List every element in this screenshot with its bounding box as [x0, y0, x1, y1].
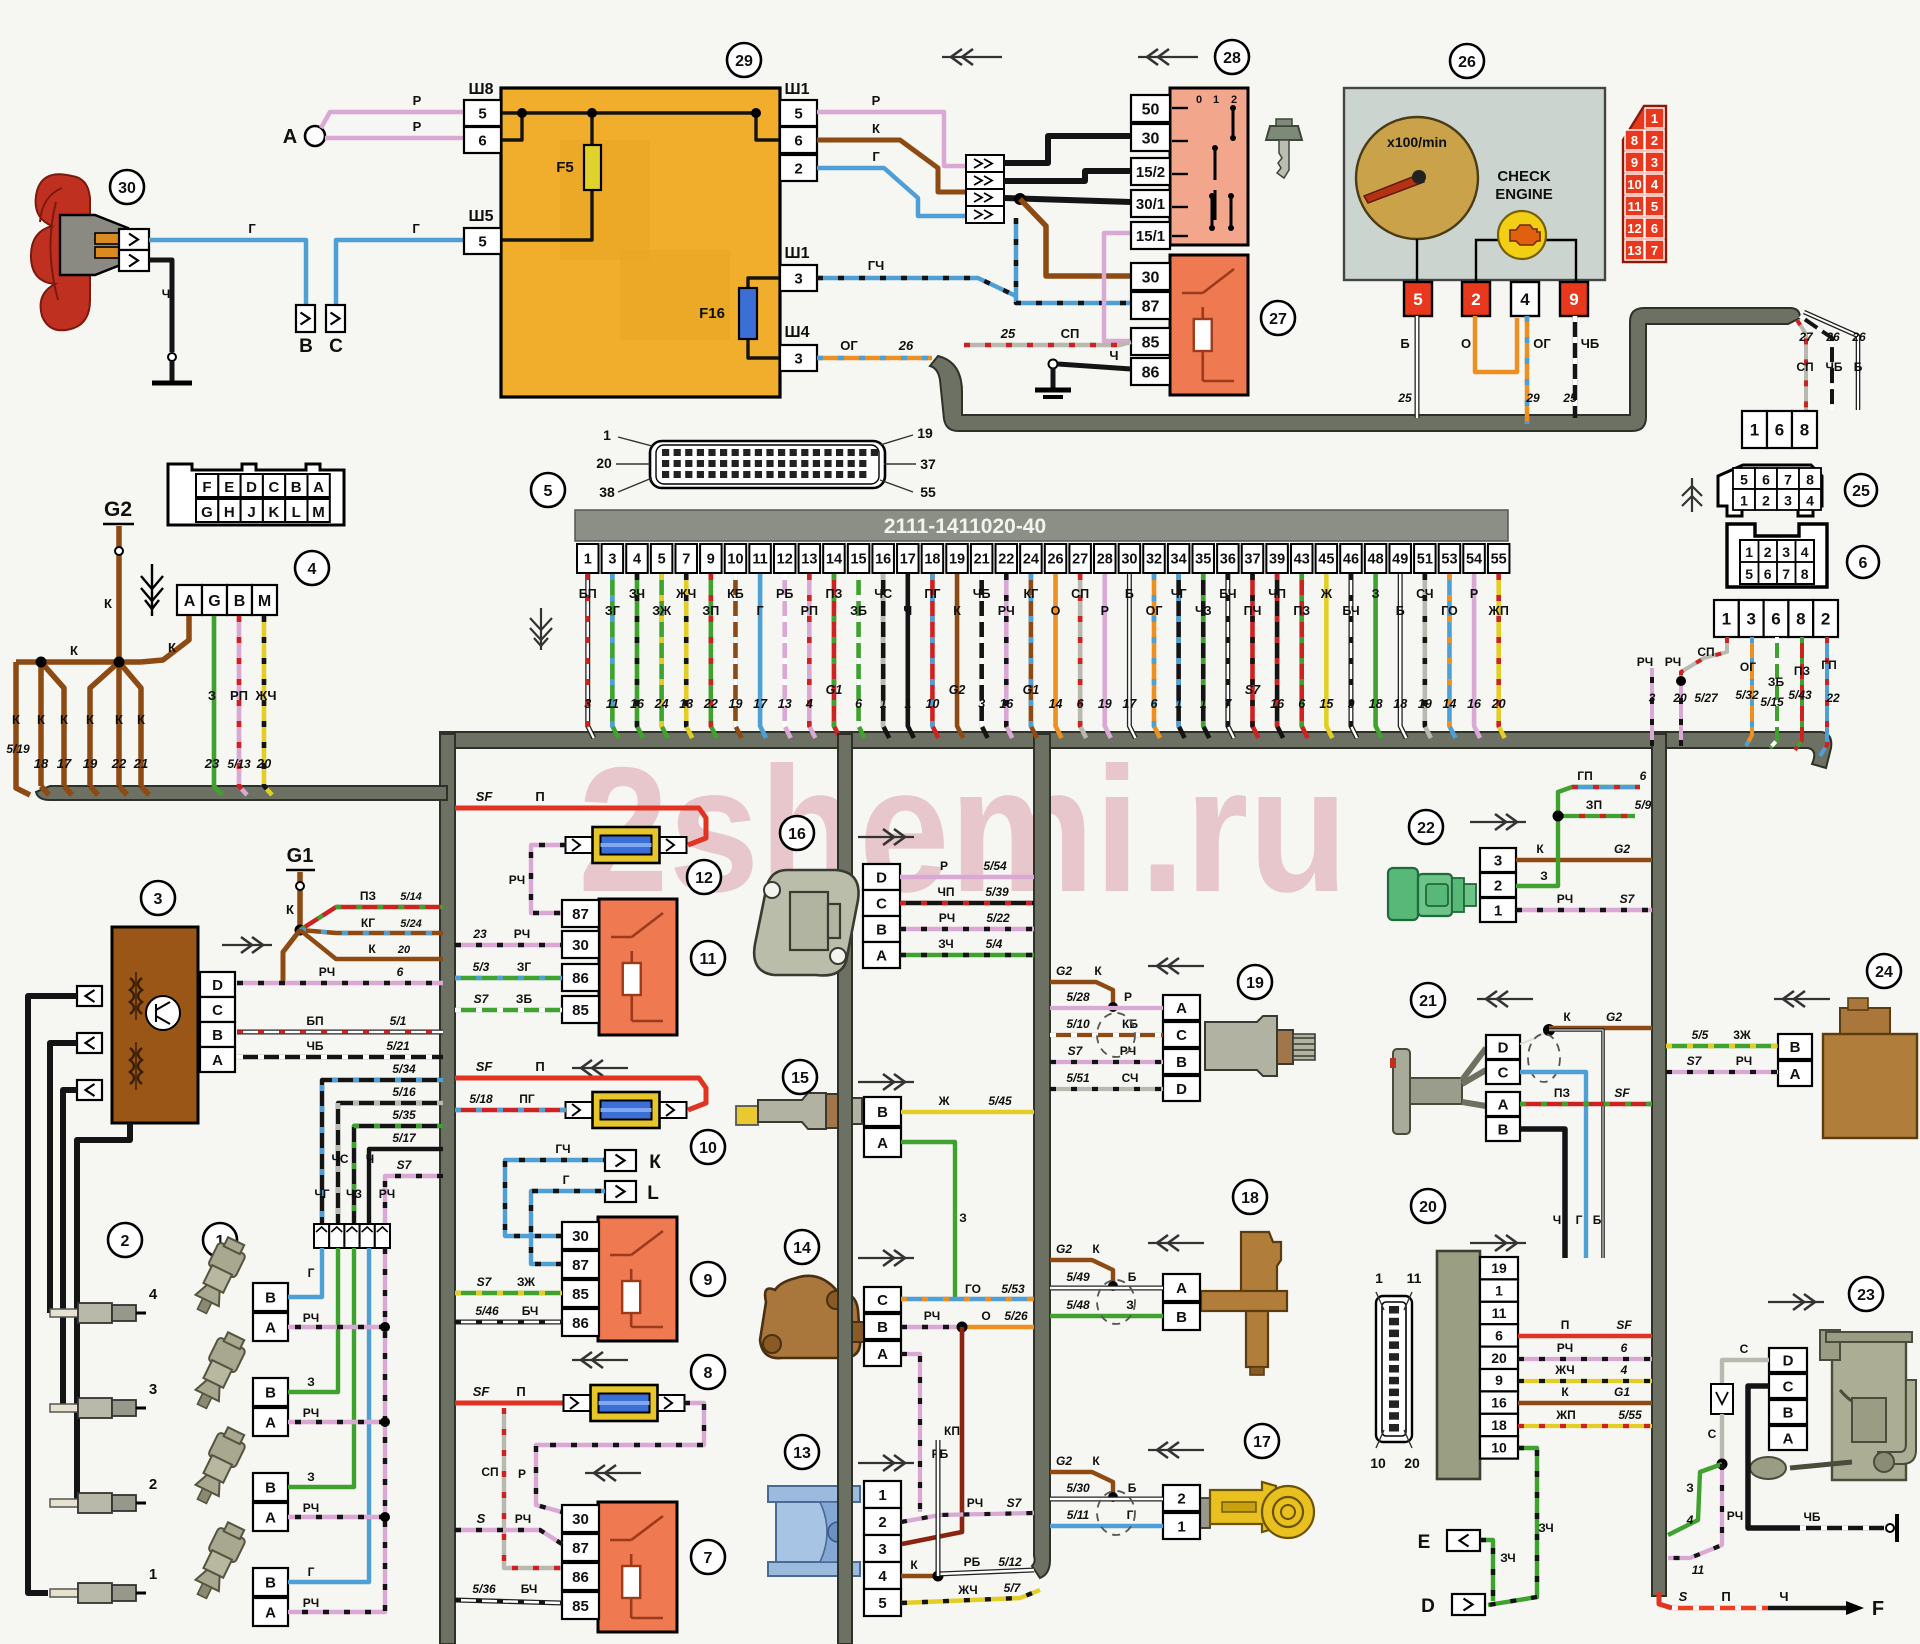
svg-text:A: A	[1498, 1096, 1509, 1113]
wire G blue injector4	[288, 1248, 322, 1297]
svg-text:M: M	[312, 504, 325, 521]
svg-text:5/15: 5/15	[1760, 695, 1784, 709]
svg-text:27: 27	[1072, 552, 1088, 568]
svg-text:РЧ: РЧ	[303, 1311, 319, 1325]
svg-text:ЗЧ: ЗЧ	[938, 937, 954, 951]
svg-text:5/4: 5/4	[986, 937, 1003, 951]
svg-text:Р: Р	[1101, 604, 1109, 618]
svg-text:ЧГ: ЧГ	[1171, 587, 1187, 601]
wire K RB 5/12 from pin4	[901, 1555, 1034, 1582]
svg-text:З: З	[959, 1211, 967, 1225]
svg-text:A: A	[877, 1346, 888, 1363]
svg-text:G1: G1	[1023, 683, 1040, 697]
pin Sh4-3	[780, 324, 817, 371]
svg-text:3: 3	[149, 1381, 157, 1398]
wire ChB black-white to terminal	[1800, 1510, 1897, 1542]
svg-text:РЧ: РЧ	[303, 1406, 319, 1420]
oxygen sensor 15	[736, 1060, 862, 1129]
module 3 pins D C B A	[200, 972, 235, 1072]
wire ChB black-white cluster9	[1562, 316, 1599, 418]
svg-text:9: 9	[1495, 1372, 1503, 1388]
wire K brown G1 stem	[286, 872, 305, 936]
svg-text:6: 6	[1771, 610, 1780, 629]
svg-text:14: 14	[793, 1240, 811, 1257]
svg-text:ПЗ: ПЗ	[1293, 604, 1310, 618]
wire SF P red to fuse 12	[455, 789, 706, 845]
wire ZCh from E	[1480, 1540, 1516, 1601]
svg-text:РЧ: РЧ	[1665, 655, 1681, 669]
svg-text:2: 2	[1764, 544, 1772, 560]
svg-text:G: G	[208, 593, 220, 610]
wire GP pin2	[1820, 637, 1840, 756]
wire 5/5 ZZh to 24	[1666, 1028, 1778, 1046]
svg-text:6: 6	[397, 965, 404, 979]
sensor 17 pins 2 1	[1163, 1485, 1200, 1539]
wire OG orange-blue cluster4	[1525, 316, 1551, 424]
svg-text:SF: SF	[1616, 1318, 1632, 1332]
svg-text:Р: Р	[1124, 990, 1132, 1004]
svg-text:20: 20	[596, 455, 612, 471]
svg-text:1: 1	[1213, 94, 1219, 106]
svg-text:B: B	[877, 1104, 888, 1121]
svg-text:19: 19	[917, 425, 933, 441]
wire G blue injector1	[288, 1248, 369, 1582]
svg-text:Б: Б	[1854, 360, 1863, 374]
module 3 HT connectors	[77, 986, 102, 1100]
ECU pin 53 wire ГО	[1439, 544, 1461, 738]
spark plug 4	[50, 1286, 158, 1323]
svg-text:РП: РП	[801, 604, 818, 618]
svg-text:S: S	[1679, 1589, 1688, 1604]
fuse 10	[566, 1092, 726, 1164]
svg-text:Г: Г	[1127, 1508, 1134, 1522]
node G2	[103, 498, 134, 524]
svg-text:19: 19	[1098, 697, 1112, 711]
wire ЧЗ bundle 5/35	[354, 1108, 443, 1224]
svg-text:30: 30	[1121, 552, 1137, 568]
svg-text:15/2: 15/2	[1136, 164, 1165, 181]
svg-text:8: 8	[1631, 133, 1638, 148]
wire K brown manifold	[6, 643, 149, 795]
svg-text:5/16: 5/16	[392, 1085, 416, 1099]
svg-text:КБ: КБ	[1122, 1017, 1138, 1031]
svg-text:ЧЗ: ЧЗ	[1195, 604, 1212, 618]
ECU pin 18 wire ПГ	[922, 544, 944, 738]
svg-text:Б: Б	[1396, 604, 1405, 618]
wire Ч bundle 5/17	[369, 1131, 443, 1224]
ECU pin 24 wire КГ	[1020, 544, 1041, 738]
svg-text:Г: Г	[308, 1565, 315, 1579]
svg-text:2: 2	[1177, 1490, 1185, 1507]
svg-text:2: 2	[1821, 610, 1830, 629]
svg-text:РЧ: РЧ	[303, 1596, 319, 1610]
svg-text:Г: Г	[757, 604, 764, 618]
svg-text:17: 17	[900, 552, 916, 568]
ECU pin 11 wire Г	[749, 544, 771, 738]
svg-text:Р: Р	[413, 119, 422, 134]
svg-text:87: 87	[1142, 298, 1160, 315]
svg-text:1: 1	[603, 427, 611, 443]
svg-text:К: К	[12, 712, 20, 727]
svg-text:П: П	[535, 789, 544, 804]
svg-text:ОГ: ОГ	[840, 338, 858, 353]
svg-text:ПГ: ПГ	[519, 1092, 535, 1106]
svg-text:К: К	[60, 712, 68, 727]
ECU pin 4 wire ЗЧ	[626, 544, 648, 738]
spark plug 2	[50, 1476, 157, 1513]
svg-text:85: 85	[572, 1002, 589, 1019]
svg-text:2: 2	[1471, 290, 1480, 309]
wire harness bus mid vertical	[838, 734, 852, 1644]
svg-text:П: П	[1721, 1589, 1730, 1604]
ECU pin 54 wire Р	[1463, 544, 1485, 738]
ECU pin 17 wire Ч	[897, 544, 919, 738]
svg-text:13: 13	[679, 697, 693, 711]
svg-text:8: 8	[1800, 421, 1809, 440]
ECU pin 46 wire БЧ	[1340, 544, 1362, 738]
svg-text:О: О	[1461, 336, 1471, 351]
wire G blue from C down	[1520, 1072, 1586, 1258]
svg-text:5/39: 5/39	[985, 885, 1009, 899]
svg-text:19: 19	[1418, 697, 1432, 711]
wire blue G to junction	[817, 149, 966, 216]
svg-text:З: З	[307, 1375, 315, 1389]
svg-text:5/5: 5/5	[1692, 1028, 1709, 1042]
svg-text:16: 16	[788, 826, 806, 843]
svg-text:ГО: ГО	[1441, 604, 1458, 618]
wire Z green pin G	[204, 616, 222, 795]
svg-text:10: 10	[727, 552, 743, 568]
wire harness bus right vertical	[1652, 734, 1666, 1596]
svg-text:Б: Б	[1593, 1213, 1602, 1227]
svg-text:З: З	[1540, 869, 1548, 883]
wire G2 K to 18	[1050, 1242, 1118, 1291]
svg-text:Г: Г	[308, 1266, 315, 1280]
svg-text:10: 10	[1491, 1439, 1507, 1455]
svg-text:5: 5	[478, 105, 486, 122]
svg-text:П: П	[516, 1384, 525, 1399]
svg-text:9: 9	[1631, 155, 1638, 170]
wire S P F bottom feed	[1659, 1589, 1884, 1620]
idle air control 16	[754, 816, 858, 975]
svg-text:A: A	[1176, 1280, 1187, 1297]
svg-text:26: 26	[1047, 552, 1063, 568]
connector 25	[1718, 465, 1877, 516]
svg-text:БП: БП	[579, 587, 597, 601]
svg-text:4: 4	[1651, 177, 1659, 192]
wire harness bus mid vertical overlay	[838, 734, 852, 1644]
ground with black wire to relay86	[1035, 348, 1131, 397]
svg-text:S7: S7	[397, 1158, 413, 1172]
svg-text:Г: Г	[1576, 1213, 1583, 1227]
svg-text:К: К	[37, 712, 45, 727]
wire K from pin A of 4	[141, 616, 189, 662]
svg-text:8: 8	[704, 1365, 713, 1382]
crankshaft sensor 18	[1201, 1180, 1287, 1375]
svg-text:ЧП: ЧП	[1268, 587, 1286, 601]
wire R pink fuse8 to relay7-30	[518, 1403, 704, 1512]
svg-text:F5: F5	[556, 159, 574, 176]
ECU pin 43 wire ПЗ	[1291, 544, 1313, 738]
svg-text:G2: G2	[104, 498, 132, 521]
svg-text:5/28: 5/28	[1066, 990, 1090, 1004]
svg-text:5/18: 5/18	[469, 1092, 493, 1106]
svg-text:G1: G1	[1614, 1385, 1630, 1399]
svg-text:E: E	[1418, 1532, 1431, 1553]
svg-text:85: 85	[572, 1286, 589, 1303]
svg-text:3: 3	[154, 891, 163, 908]
svg-text:16: 16	[1491, 1395, 1507, 1411]
svg-text:B: B	[291, 479, 302, 496]
svg-text:21: 21	[133, 756, 148, 771]
connector icon of 20	[1370, 1270, 1421, 1471]
svg-text:10: 10	[1627, 177, 1641, 192]
svg-text:5: 5	[544, 483, 553, 500]
svg-text:5: 5	[478, 233, 486, 250]
wire blue C to fusebox	[336, 221, 464, 304]
svg-text:26: 26	[1458, 54, 1476, 71]
ECU pin 14 wire ПЗ	[823, 544, 845, 738]
svg-text:З: З	[1686, 1481, 1694, 1495]
svg-text:6: 6	[1298, 697, 1306, 711]
wire RCh fuse12 to relay87	[509, 845, 566, 913]
svg-text:К: К	[649, 1152, 661, 1173]
svg-text:32: 32	[1146, 552, 1162, 568]
svg-text:СП: СП	[1071, 587, 1089, 601]
wire RCh module D	[237, 965, 443, 983]
ECU pin 37 wire ПЧ	[1242, 544, 1264, 738]
ECU pin 51 wire СЧ	[1414, 544, 1436, 738]
svg-text:К: К	[1094, 964, 1102, 978]
wire 5/28 R	[1050, 990, 1163, 1008]
ground symbol left of ECU pins	[530, 608, 552, 650]
svg-text:D: D	[1176, 1081, 1187, 1098]
oxygen sensor 19	[1205, 965, 1315, 1076]
svg-text:13: 13	[793, 1445, 811, 1462]
wire Ch black from pump C	[1748, 1386, 1800, 1528]
connector K	[605, 1150, 661, 1173]
svg-text:5/21: 5/21	[386, 1039, 410, 1053]
svg-text:6: 6	[1640, 769, 1647, 783]
ECU pin 48 wire З	[1365, 544, 1387, 738]
svg-text:ЧБ: ЧБ	[1803, 1510, 1820, 1524]
svg-text:ПЗ: ПЗ	[1554, 1086, 1570, 1100]
wire SF P red to fuse 10	[455, 1059, 706, 1110]
svg-text:6: 6	[1764, 566, 1772, 582]
svg-text:B: B	[212, 1027, 223, 1044]
wire black junction to pin30	[1004, 136, 1131, 163]
wire C gray lower with junction	[1708, 1414, 1728, 1470]
svg-text:1: 1	[1375, 1270, 1383, 1286]
svg-text:D: D	[1783, 1352, 1794, 1369]
svg-text:S7: S7	[1245, 683, 1261, 697]
wire blue to relay87	[1016, 218, 1131, 303]
connector C	[326, 305, 345, 357]
svg-text:A: A	[877, 1135, 888, 1152]
relay 27 pins	[1131, 263, 1170, 385]
wire K to harness 20	[300, 930, 443, 959]
svg-text:M: M	[258, 593, 271, 610]
svg-text:ЗГ: ЗГ	[605, 604, 620, 618]
svg-text:27: 27	[1798, 330, 1814, 344]
svg-text:ЧГ: ЧГ	[314, 1187, 329, 1201]
svg-text:G2: G2	[949, 683, 966, 697]
component 16 pins D C B A	[863, 864, 900, 968]
cluster pin 5	[1404, 282, 1432, 316]
svg-text:15: 15	[850, 552, 866, 568]
svg-text:ЖП: ЖП	[1555, 1408, 1575, 1422]
svg-text:86: 86	[572, 970, 589, 987]
wire Z green pin2 up with ZP GP branches	[1516, 769, 1652, 886]
wire pink R to junction	[817, 93, 966, 166]
svg-text:ЖЧ: ЖЧ	[1554, 1363, 1574, 1377]
wire S7 ZZh to relay9-85	[455, 1275, 562, 1293]
svg-text:1: 1	[1200, 697, 1207, 711]
svg-text:РЧ: РЧ	[924, 1309, 940, 1323]
svg-text:ЧБ: ЧБ	[973, 587, 991, 601]
svg-text:П: П	[535, 1059, 544, 1074]
svg-text:4: 4	[805, 697, 813, 711]
ECU pin 19 wire К	[946, 544, 968, 738]
svg-text:5/54: 5/54	[983, 859, 1007, 873]
svg-text:К: К	[286, 902, 294, 917]
ignition key	[1266, 119, 1302, 178]
svg-text:SF: SF	[1614, 1086, 1630, 1100]
wire ChP 5/39	[900, 885, 1034, 903]
svg-text:СП: СП	[481, 1465, 498, 1479]
ECU pin 21 wire ЧБ	[971, 544, 993, 738]
svg-text:5: 5	[1745, 566, 1753, 582]
svg-text:3Ж: 3Ж	[1733, 1028, 1751, 1042]
svg-text:23: 23	[204, 756, 220, 771]
ECU pin 45 wire Ж	[1316, 544, 1338, 738]
sensor 15 pins B A	[864, 1097, 901, 1157]
wire BP module B 5/1	[237, 1014, 443, 1032]
svg-text:S7: S7	[1620, 892, 1636, 906]
svg-text:2: 2	[1651, 133, 1658, 148]
svg-text:3: 3	[608, 552, 616, 568]
svg-text:Р: Р	[1470, 587, 1478, 601]
connector 1 3 6 8 2	[1714, 600, 1838, 637]
immobilizer unit 20	[1411, 1189, 1480, 1479]
wire RCh 6 from pin20	[1518, 1341, 1652, 1359]
ECU pin 26 wire О	[1045, 544, 1067, 738]
mass air flow sensor 13	[768, 1435, 860, 1576]
svg-text:РЧ: РЧ	[1637, 655, 1653, 669]
pin Sh5	[464, 208, 501, 254]
svg-text:S7: S7	[1068, 1044, 1084, 1058]
svg-text:Б: Б	[1400, 336, 1409, 351]
svg-text:РЧ: РЧ	[998, 604, 1015, 618]
svg-text:О: О	[981, 1309, 990, 1323]
svg-text:B: B	[265, 1574, 276, 1591]
svg-text:21: 21	[974, 552, 990, 568]
svg-text:4: 4	[1806, 493, 1814, 509]
wire K G1 from pin16	[1518, 1385, 1652, 1403]
wire S7 ZB to relay11-85	[455, 992, 562, 1010]
svg-text:18: 18	[34, 756, 49, 771]
svg-text:РБ: РБ	[776, 587, 793, 601]
svg-text:D: D	[212, 977, 223, 994]
svg-text:87: 87	[572, 1257, 589, 1274]
svg-text:3: 3	[978, 697, 985, 711]
wire PZ pin8	[1788, 637, 1812, 750]
svg-text:8: 8	[1806, 472, 1814, 488]
ECU pin 5 wire ЗЖ	[651, 544, 673, 738]
relay 7 pins	[562, 1505, 599, 1619]
wire RCh pink junction to harness	[1668, 1464, 1743, 1577]
svg-text:3: 3	[794, 350, 802, 367]
svg-text:К: К	[137, 712, 145, 727]
svg-text:86: 86	[572, 1569, 589, 1586]
ECU pin 55 wire ЖП	[1488, 544, 1510, 738]
svg-text:17: 17	[57, 756, 72, 771]
svg-text:22: 22	[998, 552, 1014, 568]
wire GO 5/53	[901, 1282, 1034, 1299]
svg-text:РЧ: РЧ	[1736, 1054, 1752, 1068]
svg-text:C: C	[1498, 1064, 1509, 1081]
ground symbol right-top near connector 25	[1682, 478, 1702, 512]
svg-text:37: 37	[1244, 552, 1260, 568]
spark plug 3	[50, 1381, 157, 1418]
svg-text:25: 25	[1000, 326, 1016, 341]
svg-text:3: 3	[1784, 493, 1792, 509]
wire ChB module A 5/21	[237, 1039, 443, 1057]
svg-text:5/51: 5/51	[1066, 1071, 1090, 1085]
svg-text:36: 36	[1220, 552, 1236, 568]
svg-text:19: 19	[729, 697, 743, 711]
svg-text:29: 29	[735, 53, 753, 70]
wire O orange U-loop	[1461, 316, 1517, 372]
svg-text:5: 5	[1413, 290, 1422, 309]
fuse F5	[556, 145, 601, 190]
svg-text:1: 1	[1740, 493, 1748, 509]
svg-text:34: 34	[1171, 552, 1187, 568]
svg-text:СЧ: СЧ	[1122, 1071, 1139, 1085]
svg-text:18: 18	[1491, 1417, 1507, 1433]
ECU pin 7 wire ЖЧ	[675, 544, 697, 738]
svg-text:12: 12	[1627, 221, 1641, 236]
svg-text:5/46: 5/46	[475, 1304, 499, 1318]
svg-text:К: К	[368, 942, 376, 956]
wires SP ChB B from harness end	[1796, 320, 1814, 410]
svg-text:22: 22	[1417, 820, 1435, 837]
HT lead to plug1	[28, 996, 77, 1593]
svg-text:Ш4: Ш4	[785, 324, 810, 341]
svg-text:5/30: 5/30	[1066, 1481, 1090, 1495]
svg-text:З: З	[307, 1470, 315, 1484]
svg-text:A: A	[1783, 1430, 1794, 1447]
svg-text:L: L	[647, 1183, 659, 1204]
svg-text:1: 1	[1495, 1283, 1503, 1299]
svg-text:85: 85	[1142, 334, 1160, 351]
svg-text:ОГ: ОГ	[1740, 660, 1756, 674]
ECU pin 3 wire ЗГ	[602, 544, 624, 738]
svg-text:D: D	[1421, 1596, 1435, 1617]
svg-text:6: 6	[1859, 555, 1868, 572]
svg-text:20: 20	[1672, 691, 1687, 705]
connector 6	[1727, 524, 1879, 587]
wire ZB pin6	[1760, 637, 1784, 748]
svg-text:13: 13	[778, 697, 792, 711]
wire RP pin B	[227, 616, 251, 795]
svg-text:CHECK: CHECK	[1497, 168, 1551, 185]
wire ЧС bundle 5/16	[338, 1085, 443, 1224]
wire K G2 from 21	[1520, 1010, 1652, 1044]
svg-text:14: 14	[1442, 697, 1456, 711]
svg-text:Г: Г	[248, 221, 256, 236]
wire Ch black from B down	[1520, 1129, 1565, 1258]
